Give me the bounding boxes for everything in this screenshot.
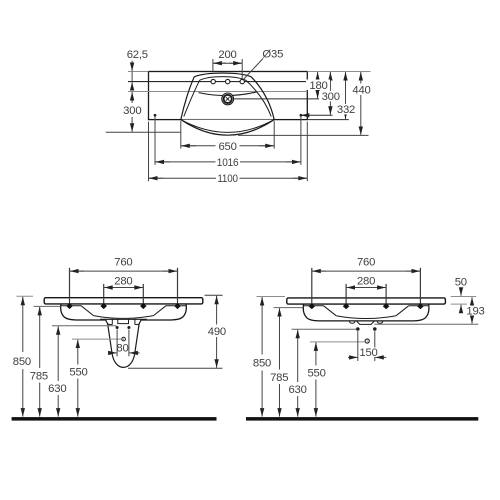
mini ear right — [377, 321, 383, 323]
basin outer right slant — [251, 77, 274, 120]
svg-text:630: 630 — [48, 383, 66, 395]
dim 490 — [216, 296, 218, 325]
svg-text:80: 80 — [116, 343, 128, 355]
bolt dot right — [373, 327, 377, 331]
bowl outer silhouette — [61, 304, 187, 320]
cover inner walls — [108, 319, 139, 325]
svg-text:Ø35: Ø35 — [262, 49, 283, 61]
dim 62,5 — [131, 61, 133, 71]
bowl inner arc — [94, 316, 154, 319]
siphon cover — [105, 319, 141, 368]
dim 630 — [297, 330, 299, 382]
bowl contour diagonal left — [324, 306, 337, 316]
tap hole right — [240, 79, 244, 83]
floor left — [12, 417, 217, 421]
dim 650 — [180, 121, 182, 149]
dim 760 — [70, 270, 178, 272]
basin inner top arc — [200, 77, 246, 81]
right view texts — [253, 256, 486, 396]
dim 80 — [116, 330, 118, 357]
fixing pins — [311, 268, 313, 304]
fixing dot left — [154, 114, 157, 117]
basin top arc — [194, 73, 251, 77]
svg-text:650: 650 — [218, 141, 236, 153]
countertop rectangle — [149, 72, 308, 120]
svg-text:200: 200 — [218, 49, 236, 61]
dim 332 — [345, 72, 347, 104]
plan dimensions — [128, 59, 361, 182]
countertop slab — [287, 298, 446, 304]
svg-text:760: 760 — [114, 256, 132, 268]
dim 193 — [471, 297, 473, 303]
rect bottom edge extension for 332 — [307, 119, 349, 121]
tap hole left — [211, 79, 215, 83]
ext 550 — [72, 338, 121, 340]
bowl contour diagonal right — [396, 306, 409, 316]
ext 630 — [292, 328, 357, 330]
fixing bolt diamonds — [66, 303, 73, 309]
plan texts — [121, 49, 373, 186]
dim 785 — [39, 307, 41, 368]
basin outer left slant — [181, 77, 194, 120]
svg-text:280: 280 — [357, 276, 375, 288]
drain notch — [118, 319, 129, 324]
basin rim line right — [166, 305, 186, 307]
svg-text:300: 300 — [322, 91, 340, 103]
drain leader to 180 dim — [234, 98, 321, 100]
top edge extensions (gray) — [128, 71, 149, 73]
dim 280 — [104, 287, 144, 289]
right view dimensions — [257, 271, 479, 417]
dim 200 — [212, 59, 214, 72]
svg-text:630: 630 — [288, 384, 306, 396]
rim extension left — [17, 295, 34, 297]
overflow circle — [122, 337, 126, 341]
rim ext left — [257, 296, 286, 298]
ext 193 bottom — [374, 323, 478, 325]
dim 300 left — [128, 91, 149, 93]
fixing pins — [69, 268, 71, 304]
ext 785 — [274, 307, 304, 309]
dim 150 — [357, 331, 359, 361]
overflow circle — [365, 339, 369, 343]
tap deck front curve — [199, 92, 257, 96]
dim 550 — [77, 340, 79, 365]
bolt dot left — [356, 327, 360, 331]
bowl contour diagonal left — [81, 306, 94, 316]
drain cross — [226, 97, 230, 101]
basin front bulge mask — [181, 120, 274, 136]
dim 50 — [460, 288, 462, 296]
mini ear left — [349, 321, 355, 323]
bowl outer silhouette — [303, 304, 429, 321]
svg-text:440: 440 — [352, 84, 370, 96]
rim extension right (490) — [205, 294, 223, 296]
dim 760 — [312, 270, 421, 272]
dim 785 — [279, 308, 281, 369]
dim 300 right — [329, 72, 331, 91]
svg-text:1016: 1016 — [217, 157, 239, 169]
basin inner left slant — [184, 80, 200, 116]
drain outer circle — [222, 93, 234, 105]
left view texts — [13, 256, 228, 395]
tap hole centre — [226, 79, 230, 83]
svg-text:785: 785 — [30, 370, 48, 382]
svg-text:332: 332 — [337, 104, 355, 116]
svg-text:193: 193 — [466, 305, 484, 317]
basin front outer curve — [181, 120, 274, 136]
basin rim line left — [62, 305, 82, 307]
drain inner ring — [224, 95, 232, 103]
svg-text:62,5: 62,5 — [127, 49, 148, 61]
svg-text:490: 490 — [208, 326, 226, 338]
svg-text:150: 150 — [359, 347, 377, 359]
dim 1016 — [154, 116, 156, 165]
fixing bolt diamonds — [309, 303, 316, 309]
slab bottom ext right — [451, 303, 467, 305]
front tangent extension right — [238, 134, 369, 136]
front tangent extension left — [106, 131, 181, 133]
svg-text:550: 550 — [307, 367, 325, 379]
bowl bottom edge across cover — [100, 318, 147, 320]
dim 280 — [346, 287, 386, 289]
dim 850 — [261, 297, 263, 355]
svg-text:300: 300 — [123, 105, 141, 117]
tap hole centre line — [128, 81, 307, 83]
basin rim line right — [409, 305, 429, 307]
drain notch — [356, 321, 374, 325]
svg-text:180: 180 — [309, 80, 327, 92]
svg-text:1100: 1100 — [217, 173, 238, 185]
basin front inner curve — [181, 120, 274, 133]
floor right — [246, 417, 478, 421]
dim 630 — [57, 326, 59, 381]
rim ext right — [451, 296, 477, 298]
dim 1100 — [148, 122, 150, 182]
bolt dot right — [127, 326, 130, 329]
left view dimensions — [17, 271, 223, 417]
dim 180 — [317, 72, 319, 79]
svg-text:850: 850 — [253, 358, 271, 370]
pointer line for 300 dim — [301, 114, 333, 116]
ext 785 — [34, 305, 61, 307]
bolt dot left — [116, 326, 119, 329]
dim 550 — [315, 342, 317, 365]
dim 850 — [22, 297, 24, 352]
bowl contour diagonal right — [154, 306, 167, 316]
basin rim line left — [304, 305, 324, 307]
svg-text:760: 760 — [357, 256, 375, 268]
ext 490 bottom — [128, 367, 223, 369]
svg-text:50: 50 — [455, 277, 467, 289]
basin inner right slant — [246, 80, 271, 116]
svg-text:785: 785 — [270, 372, 288, 384]
svg-text:280: 280 — [114, 276, 132, 288]
leader Ø35 — [244, 59, 263, 79]
rear shelf line (gray) — [128, 91, 307, 93]
bowl inner arc — [336, 316, 396, 319]
ext 550 — [310, 341, 365, 343]
dim 440 — [360, 72, 362, 84]
svg-text:550: 550 — [69, 367, 87, 379]
countertop slab — [44, 298, 203, 304]
fixing dot right — [300, 114, 303, 117]
svg-text:850: 850 — [13, 356, 31, 368]
ext 630 — [52, 325, 117, 327]
